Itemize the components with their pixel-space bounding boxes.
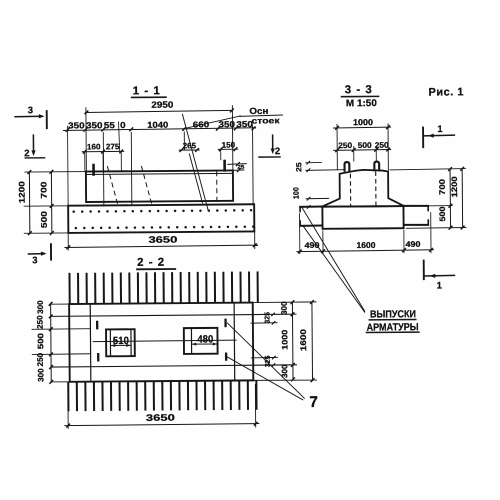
svg-text:55: 55 <box>104 120 115 130</box>
rebar outlet hook right 3-3 <box>374 162 379 172</box>
rebar outlet mark top-left <box>96 321 98 330</box>
svg-text:1040: 1040 <box>147 120 168 130</box>
rebar bar left bottom <box>299 225 322 227</box>
svg-text:3: 3 <box>28 105 33 116</box>
pier plan edge top horizontal <box>51 314 297 316</box>
extension x299.8 down <box>299 213 301 254</box>
dim line 1200 right <box>461 169 463 228</box>
leader to 7 upper <box>227 322 305 399</box>
extension y229.4 right 3-3 <box>406 227 467 230</box>
svg-text:250: 250 <box>36 315 45 329</box>
svg-text:1: 1 <box>437 280 443 291</box>
svg-text:1600: 1600 <box>356 240 375 250</box>
svg-text:1000: 1000 <box>280 329 289 350</box>
svg-text:500: 500 <box>438 206 447 222</box>
svg-text:2 - 2: 2 - 2 <box>137 257 165 269</box>
svg-text:250: 250 <box>36 352 45 366</box>
extension y302.6 sides <box>50 303 69 305</box>
svg-text:350: 350 <box>86 120 103 130</box>
extension line x104.2 through pier <box>102 132 105 205</box>
extension y327.5 left <box>32 328 91 331</box>
svg-text:2: 2 <box>275 146 280 157</box>
leader to 7 lower <box>227 356 303 401</box>
pier hidden line right <box>375 172 377 206</box>
dim 3650 bottom extension right <box>254 384 256 427</box>
extension y380.4 sides <box>51 381 70 383</box>
svg-text:350: 350 <box>218 119 235 129</box>
rebar outlet mark top-right <box>224 319 226 328</box>
rebar bar right bottom <box>404 224 430 226</box>
leader vypuski lower <box>303 225 365 313</box>
leader slant long <box>182 114 208 211</box>
svg-text:3: 3 <box>32 255 37 266</box>
section marker 3 bottom-left <box>28 253 45 255</box>
extension y170.3 left <box>24 171 85 173</box>
rebar bar left top <box>299 206 322 208</box>
svg-text:660: 660 <box>193 119 210 129</box>
svg-text:500: 500 <box>40 211 49 229</box>
svg-text:1600: 1600 <box>299 329 308 352</box>
pier 3-3 outline <box>322 170 403 207</box>
extension y231.5 left <box>24 232 68 234</box>
rebar teeth bottom row <box>67 382 69 411</box>
dim line 3650 bottom 1-1 <box>64 245 258 247</box>
pier hidden line left <box>349 174 351 206</box>
rebar teeth top row <box>68 273 70 304</box>
svg-text:325: 325 <box>262 312 271 324</box>
svg-text:Рис. 1: Рис. 1 <box>428 86 464 98</box>
svg-text:160: 160 <box>87 142 101 151</box>
pier plan edge right vertical <box>233 303 236 381</box>
svg-text:350: 350 <box>236 119 253 129</box>
slab 3-3 outline <box>322 206 403 229</box>
rebar outlet mark bottom-left <box>97 353 99 361</box>
svg-text:1000: 1000 <box>353 117 373 127</box>
extension line x68.5 <box>67 126 70 206</box>
dim line 3650 bottom 2-2 <box>64 424 259 426</box>
svg-text:300: 300 <box>36 368 45 382</box>
slab rebar dots row 2 <box>75 227 78 230</box>
svg-text:150: 150 <box>222 141 236 150</box>
svg-text:350: 350 <box>68 120 85 130</box>
dim line 160-275 <box>82 150 124 152</box>
dim 3650 extension left <box>67 233 69 250</box>
slab rebar dots row 1 <box>72 210 75 213</box>
svg-text:3650: 3650 <box>146 413 175 423</box>
extension line right x233.5 <box>231 105 234 170</box>
extension y204.4 left <box>24 205 68 207</box>
slab plan outline <box>69 303 253 382</box>
svg-text:300: 300 <box>36 300 45 314</box>
extension y207.4 right 3-3 <box>405 205 453 208</box>
axis line through boxes <box>93 340 237 342</box>
svg-text:250: 250 <box>338 141 353 150</box>
svg-text:500: 500 <box>36 332 45 349</box>
svg-text:300: 300 <box>280 301 289 315</box>
dim line 2950 <box>85 110 233 112</box>
dim 25 left 3-3 <box>305 161 322 163</box>
extension x323 down <box>322 230 324 253</box>
svg-text:3650: 3650 <box>148 235 177 245</box>
dim line 150 <box>218 148 238 150</box>
svg-text:М 1:50: М 1:50 <box>346 98 377 109</box>
pier rebar right <box>223 160 226 172</box>
svg-text:1200: 1200 <box>17 181 26 204</box>
svg-text:стоек: стоек <box>251 116 280 125</box>
pier 1-1 outline <box>86 170 233 202</box>
dim 25 upper line <box>227 163 247 166</box>
pier rebar left <box>92 164 95 176</box>
extension y352.6 left <box>32 353 91 356</box>
extension x221.5 to rebar <box>220 149 222 160</box>
section marker 1 bottom-right <box>423 260 425 280</box>
svg-text:700: 700 <box>438 178 447 195</box>
hidden dashed line b <box>141 166 151 204</box>
svg-text:275: 275 <box>106 142 120 151</box>
svg-text:490: 490 <box>405 240 421 249</box>
pier plan edge left vertical <box>89 304 92 382</box>
anchor box 510 <box>106 329 135 356</box>
leader vypuski upper <box>301 206 365 312</box>
extension x431 down <box>430 212 432 253</box>
extension x119 label split <box>118 122 119 152</box>
svg-text:1 - 1: 1 - 1 <box>133 85 161 97</box>
extension x377 <box>375 146 377 161</box>
slab 1-1 outline <box>68 204 254 233</box>
right vertical dim 1600 <box>311 302 314 380</box>
anchor box 480 <box>184 328 218 354</box>
extension x122 <box>120 151 122 171</box>
extension x338 <box>336 124 338 170</box>
extension line left x87 <box>85 107 88 171</box>
dim line 700-500 right <box>449 169 451 228</box>
rebar outlet hook left 3-3 <box>345 162 350 172</box>
leader line to axis <box>182 116 241 129</box>
svg-text:Осн: Осн <box>249 106 268 116</box>
vertical dim line 1200 <box>28 172 30 233</box>
section marker 2 left <box>32 134 34 154</box>
svg-text:7: 7 <box>309 394 318 411</box>
dim line 3650 split <box>63 128 256 131</box>
right vertical dim 300-1000-300 <box>291 302 294 379</box>
section marker 2 right <box>272 134 274 152</box>
hidden dashed line a <box>107 166 117 204</box>
svg-text:700: 700 <box>39 181 48 199</box>
pier plan edge bottom horizontal <box>51 365 297 367</box>
svg-text:500: 500 <box>358 141 373 150</box>
svg-text:1: 1 <box>437 124 443 135</box>
vertical dim line 700/500 <box>50 172 52 233</box>
section marker 3 top-left <box>14 115 43 118</box>
dim 3650 bottom extension left <box>67 408 69 428</box>
svg-text:0: 0 <box>120 120 126 130</box>
dim line 265 <box>179 149 200 151</box>
pier top edge double line <box>86 173 233 174</box>
svg-text:25: 25 <box>294 161 303 171</box>
dim 490-1600-490 bottom 3-3 <box>297 250 435 252</box>
left vertical dim line 2-2 <box>50 303 53 382</box>
extension line x253.5 <box>252 124 255 203</box>
extension x389 <box>387 123 389 170</box>
rebar outlet mark bottom-right <box>225 352 227 360</box>
svg-text:3 - 3: 3 - 3 <box>345 84 373 96</box>
svg-text:2950: 2950 <box>151 100 173 110</box>
dim 25 lower line <box>233 169 245 172</box>
axis label line (Osn stoek) <box>239 115 283 116</box>
extension x85.5 <box>84 152 86 172</box>
svg-text:100: 100 <box>292 187 301 199</box>
extension y323 right <box>251 322 278 325</box>
extension x404 down <box>403 230 405 253</box>
extension y170.6 right 3-3 <box>389 169 466 170</box>
extension x103.8 <box>102 152 104 172</box>
svg-text:490: 490 <box>304 241 320 250</box>
extension line x132.2 through pier <box>130 132 133 205</box>
hidden dashed line c <box>216 171 218 203</box>
extension line x185.2 <box>183 132 185 150</box>
svg-text:480: 480 <box>197 333 213 345</box>
extension x354.5 <box>353 146 355 161</box>
svg-text:1200: 1200 <box>450 176 459 198</box>
rebar bar right top <box>403 205 429 207</box>
dim 3650 extension right <box>254 231 256 248</box>
dim 100 left 3-3 <box>306 197 330 199</box>
extension y357.9 right <box>251 356 278 359</box>
leader slant short <box>189 153 202 203</box>
section marker 1 top-right <box>422 127 424 148</box>
svg-text:25: 25 <box>237 165 244 171</box>
